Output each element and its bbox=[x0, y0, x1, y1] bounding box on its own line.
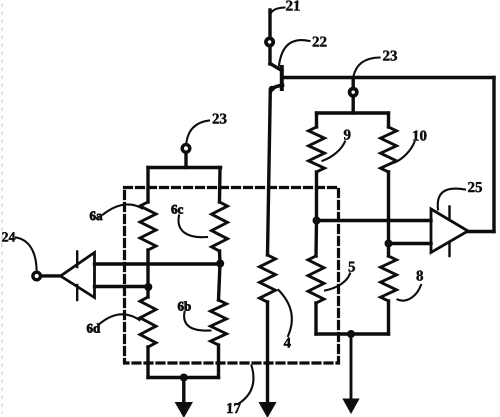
label 25 bbox=[468, 182, 482, 192]
op-amp U25 bottom power pin bbox=[448, 242, 450, 256]
wire drop to resistor 9 bbox=[315, 113, 318, 127]
op-amp U24 triangle bbox=[61, 253, 95, 298]
wire left top rail bbox=[148, 166, 221, 169]
label 23 left bbox=[213, 114, 227, 124]
dashed box 17 bbox=[125, 188, 339, 364]
wire R9 to node bbox=[315, 172, 318, 221]
transistor Q 22 emitter elbow blob bbox=[269, 86, 275, 91]
wire circle to inner rail bbox=[352, 98, 355, 113]
wire node to amp input 1 bbox=[317, 219, 432, 222]
node dot A bbox=[313, 217, 321, 225]
leader 17 bbox=[238, 366, 253, 405]
wire node A to resistor 5 bbox=[314, 221, 318, 257]
wire right edge feedback bbox=[492, 78, 495, 232]
resistor R6b bbox=[211, 300, 227, 345]
wire top rail (base to right edge) bbox=[283, 76, 494, 79]
wire R6b down bbox=[217, 345, 220, 378]
node dot C bbox=[347, 330, 355, 338]
wire to ground right bbox=[350, 334, 353, 400]
wire drop to R6c bbox=[218, 168, 222, 203]
wire node B to resistor 8 bbox=[387, 244, 390, 257]
label 6d bbox=[87, 323, 100, 332]
node dot B bbox=[385, 240, 393, 248]
wire amp 24 output bbox=[44, 274, 61, 277]
resistor R4 bbox=[260, 255, 276, 302]
label 4 bbox=[284, 338, 291, 348]
resistor R8 bbox=[381, 256, 397, 301]
resistor R5 bbox=[308, 256, 324, 303]
resistor R6a bbox=[140, 202, 156, 250]
label 9 bbox=[344, 130, 351, 140]
node dot E bbox=[216, 260, 224, 268]
leader 23 left bbox=[186, 121, 209, 144]
wire node E down to R6b bbox=[219, 264, 221, 301]
wire stub rail to circle 23 right bbox=[352, 79, 355, 87]
wire to ground left bbox=[182, 378, 185, 404]
transistor Q 22 base bar bbox=[280, 67, 284, 89]
terminal circle 24 bbox=[33, 272, 41, 280]
node dot F bbox=[180, 374, 188, 382]
resistor R6c bbox=[212, 202, 228, 251]
terminal circle 21 bbox=[266, 38, 273, 45]
leader 5 bbox=[325, 274, 350, 291]
wire node E to amp input 1 bbox=[95, 262, 221, 265]
leader 22 bbox=[279, 40, 310, 65]
leader 24 bbox=[16, 238, 37, 270]
node dot D bbox=[144, 283, 152, 291]
leader 6b bbox=[184, 312, 210, 331]
transistor Q 22 emitter diagonal bbox=[271, 85, 283, 91]
leader 6a bbox=[103, 204, 143, 214]
wire drop to resistor 10 bbox=[387, 113, 390, 127]
leader 25 bbox=[438, 189, 465, 210]
leader 10 bbox=[395, 142, 415, 163]
wire inner top rail right network bbox=[317, 111, 389, 114]
label 8 bbox=[417, 271, 424, 281]
transistor Q 22 collector diagonal bbox=[270, 64, 282, 71]
label 23 right bbox=[383, 51, 397, 61]
op-amp U25 top power pin bbox=[448, 207, 450, 221]
label 22 bbox=[313, 37, 327, 47]
wire drop to R6a bbox=[146, 168, 149, 203]
label 5 bbox=[349, 262, 355, 272]
label 6b bbox=[178, 301, 191, 310]
wire circle21 to transistor bbox=[268, 48, 271, 65]
wire R8 down bbox=[387, 301, 390, 334]
wire R5 down bbox=[314, 303, 317, 334]
label 21 bbox=[286, 1, 300, 11]
resistor R9 bbox=[309, 127, 325, 172]
ground right bbox=[343, 399, 359, 413]
wire emitter down to resistor 4 bbox=[268, 90, 271, 255]
wire R4 to ground bbox=[266, 302, 269, 403]
label 24 bbox=[2, 232, 15, 241]
label 6a bbox=[90, 211, 102, 220]
op-amp U24 top power pin bbox=[76, 252, 78, 268]
ground center bbox=[259, 403, 275, 417]
wire R10 to node bbox=[387, 172, 390, 244]
leader 6c bbox=[179, 216, 207, 238]
wire amp 25 output bbox=[468, 230, 494, 233]
wire right bottom rail bbox=[316, 332, 389, 335]
terminal circle 23 right bbox=[350, 89, 357, 96]
resistor R10 bbox=[381, 127, 397, 172]
wire terminal 21 lead bbox=[268, 10, 271, 37]
wire left bottom rail bbox=[148, 376, 219, 379]
wire R6a to node D bbox=[146, 250, 149, 297]
leader 4 bbox=[279, 290, 292, 336]
label 17 bbox=[227, 403, 240, 413]
wire stub left circle 23 bbox=[184, 154, 187, 168]
leader 6d bbox=[100, 314, 140, 323]
wire R6c to node E bbox=[218, 251, 222, 264]
resistor R6d bbox=[140, 297, 156, 347]
leader 21 bbox=[270, 8, 285, 16]
leader 9 bbox=[323, 142, 346, 161]
leader 23 right bbox=[353, 58, 379, 78]
wire R6d down bbox=[146, 347, 149, 378]
wire node to amp input 2 bbox=[389, 242, 432, 245]
op-amp U25 triangle bbox=[431, 209, 468, 253]
leader 8 bbox=[398, 285, 422, 301]
terminal circle 23 left bbox=[182, 145, 190, 153]
ground left bbox=[176, 403, 193, 417]
label 10 bbox=[413, 131, 426, 141]
wire node D to amp input 2 bbox=[95, 285, 149, 288]
label 6c bbox=[171, 205, 183, 214]
scan edge artifact bbox=[1, 4, 3, 413]
op-amp U24 bottom power pin bbox=[76, 285, 78, 300]
